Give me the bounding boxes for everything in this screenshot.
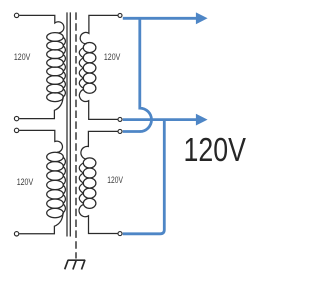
svg-text:120V: 120V bbox=[14, 52, 31, 63]
svg-text:120V: 120V bbox=[107, 175, 123, 186]
svg-text:120V: 120V bbox=[104, 52, 121, 63]
svg-text:120V: 120V bbox=[17, 177, 34, 188]
svg-text:120V: 120V bbox=[184, 131, 246, 168]
